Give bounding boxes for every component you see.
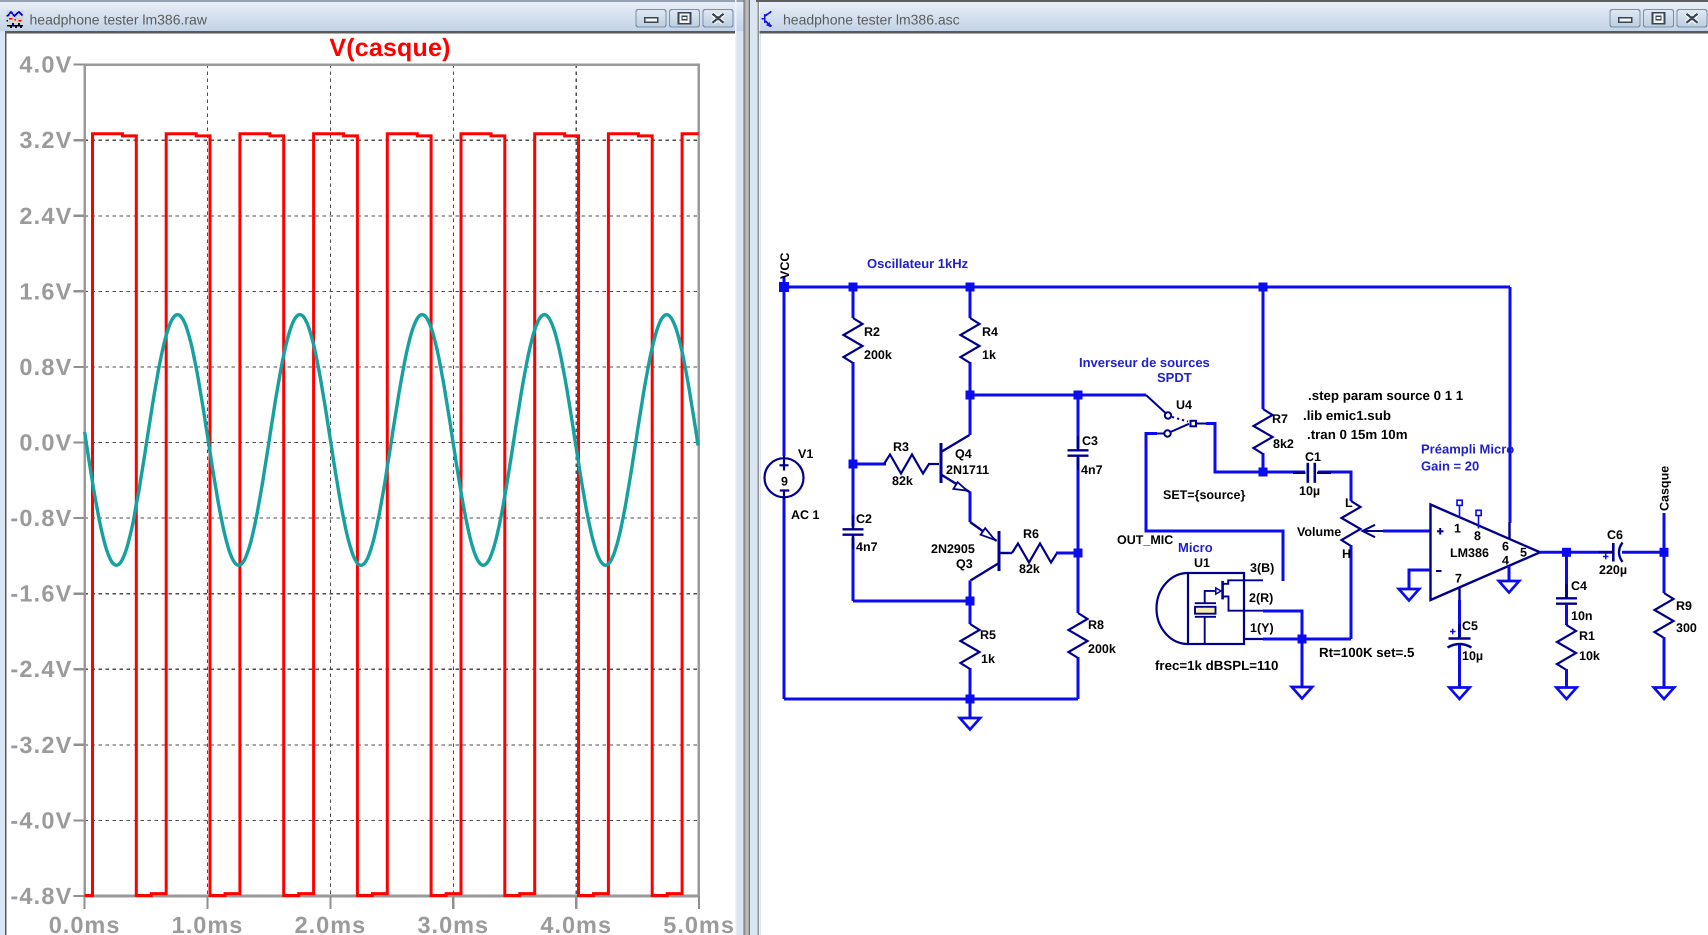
svg-text:4.0V: 4.0V xyxy=(19,52,72,78)
svg-text:5: 5 xyxy=(1520,546,1527,560)
svg-text:Q3: Q3 xyxy=(956,557,973,571)
svg-text:R5: R5 xyxy=(980,628,996,642)
svg-text:1(Y): 1(Y) xyxy=(1250,621,1274,635)
svg-text:200k: 200k xyxy=(1088,642,1116,656)
svg-text:-4.0V: -4.0V xyxy=(10,807,72,833)
svg-text:200k: 200k xyxy=(864,348,892,362)
left window buttons xyxy=(636,10,666,28)
svg-text:LM386: LM386 xyxy=(1450,546,1489,560)
resistor R7 xyxy=(1262,287,1265,409)
ground C5 xyxy=(1449,688,1469,700)
svg-text:-1.6V: -1.6V xyxy=(10,581,72,607)
flag Casque xyxy=(1663,513,1666,552)
svg-text:frec=1k dBSPL=110: frec=1k dBSPL=110 xyxy=(1155,658,1278,673)
svg-text:-4.8V: -4.8V xyxy=(10,883,72,909)
resistor R2 xyxy=(852,287,855,318)
resistor R8 xyxy=(1077,553,1080,613)
svg-text:5.0ms: 5.0ms xyxy=(663,912,735,935)
capacitor C3 xyxy=(1077,395,1080,449)
svg-text:SET={source}: SET={source} xyxy=(1163,488,1245,502)
wire Q3 collector xyxy=(969,581,972,602)
plot pane xyxy=(10,34,735,935)
right window frame xyxy=(760,0,1708,935)
svg-text:2(R): 2(R) xyxy=(1249,591,1273,605)
ground mic xyxy=(1301,639,1304,687)
resistor R1 xyxy=(1565,605,1568,626)
wire inverting input to ground xyxy=(1409,570,1430,589)
svg-text:VCC: VCC xyxy=(778,253,792,279)
ground main xyxy=(969,699,972,718)
right window icon xyxy=(761,11,771,26)
left window frame xyxy=(0,0,753,935)
trace V(casque) square wave red xyxy=(85,134,699,896)
svg-text:10n: 10n xyxy=(1571,609,1593,623)
svg-text:4.0ms: 4.0ms xyxy=(540,912,612,935)
svg-text:1: 1 xyxy=(1454,522,1461,536)
svg-text:V1: V1 xyxy=(798,447,813,461)
svg-text:R4: R4 xyxy=(982,325,998,339)
svg-text:R7: R7 xyxy=(1272,412,1288,426)
wire switch pole to R7 node xyxy=(1206,424,1263,473)
capacitor C5 10u polarized xyxy=(1458,624,1460,638)
svg-text:-2.4V: -2.4V xyxy=(10,656,72,682)
svg-text:Volume: Volume xyxy=(1297,525,1341,539)
wire op-amp output xyxy=(1540,551,1613,554)
svg-text:R6: R6 xyxy=(1023,527,1039,541)
svg-text:4n7: 4n7 xyxy=(856,540,878,554)
svg-text:C2: C2 xyxy=(856,512,872,526)
svg-text:2.4V: 2.4V xyxy=(19,203,72,229)
svg-text:Oscillateur 1kHz: Oscillateur 1kHz xyxy=(867,256,969,271)
svg-text:Gain = 20: Gain = 20 xyxy=(1421,459,1479,474)
x axis labels xyxy=(49,912,735,935)
svg-text:headphone tester lm386.raw: headphone tester lm386.raw xyxy=(30,12,208,28)
switch U4 SPDT xyxy=(1146,395,1206,437)
resistor R6 xyxy=(1012,544,1057,563)
pin 4 ground xyxy=(1508,566,1511,581)
svg-text:R3: R3 xyxy=(893,440,909,454)
potentiometer Volume xyxy=(1342,501,1361,546)
microphone U1 xyxy=(1157,573,1264,644)
pin 7 wire to C5 xyxy=(1458,587,1460,601)
wire VCC drop to U2 pin6 xyxy=(1509,287,1512,523)
svg-text:V(casque): V(casque) xyxy=(329,34,450,62)
svg-text:0.0V: 0.0V xyxy=(19,430,72,456)
svg-text:L: L xyxy=(1345,496,1353,510)
svg-text:1.6V: 1.6V xyxy=(19,278,72,304)
svg-text:R9: R9 xyxy=(1676,599,1692,613)
svg-text:6: 6 xyxy=(1502,540,1509,554)
wire Q4 collector xyxy=(969,395,972,435)
svg-text:Micro: Micro xyxy=(1178,540,1213,555)
plot axis box xyxy=(85,65,699,896)
svg-text:AC 1: AC 1 xyxy=(791,508,820,522)
svg-text:U4: U4 xyxy=(1176,398,1192,412)
svg-text:82k: 82k xyxy=(892,474,913,488)
svg-text:3.0ms: 3.0ms xyxy=(417,912,489,935)
ground R1 xyxy=(1556,688,1576,700)
y axis labels xyxy=(10,52,72,909)
svg-text:OUT_MIC: OUT_MIC xyxy=(1117,533,1173,547)
resistor R5 xyxy=(969,601,972,624)
wire wiper to op-amp xyxy=(1383,530,1430,533)
svg-text:C4: C4 xyxy=(1571,579,1587,593)
pin stubs 1 and 8 xyxy=(1457,500,1481,528)
window divider xyxy=(735,0,737,935)
svg-text:1k: 1k xyxy=(981,652,995,666)
flag VCC xyxy=(783,276,786,287)
resistor R3 xyxy=(884,455,929,474)
svg-text:2.0ms: 2.0ms xyxy=(295,912,367,935)
svg-text:8: 8 xyxy=(1474,529,1481,543)
svg-text:.tran 0 15m 10m: .tran 0 15m 10m xyxy=(1307,427,1408,442)
svg-text:0.8V: 0.8V xyxy=(19,354,72,380)
svg-text:7: 7 xyxy=(1455,572,1462,586)
svg-text:Inverseur de sources: Inverseur de sources xyxy=(1079,355,1210,370)
trace sine teal xyxy=(85,315,699,566)
resistor R9 xyxy=(1663,552,1666,593)
svg-text:-0.8V: -0.8V xyxy=(10,505,72,531)
ground R9 xyxy=(1654,688,1674,700)
svg-text:U1: U1 xyxy=(1194,556,1210,570)
capacitor C1 10u xyxy=(1263,471,1305,474)
ground op-amp minus xyxy=(1399,589,1419,601)
svg-text:220µ: 220µ xyxy=(1599,563,1627,577)
op-amp U2 LM386 xyxy=(1431,505,1541,601)
svg-text:C1: C1 xyxy=(1305,450,1321,464)
wire mic pin1 to pot xyxy=(1263,638,1351,641)
svg-text:4n7: 4n7 xyxy=(1081,463,1103,477)
wire mic pin2 xyxy=(1263,611,1302,639)
svg-text:10µ: 10µ xyxy=(1462,649,1483,663)
svg-text:1k: 1k xyxy=(982,348,996,362)
svg-text:headphone tester lm386.asc: headphone tester lm386.asc xyxy=(783,12,960,28)
svg-text:10µ: 10µ xyxy=(1299,484,1320,498)
node R7/C1 xyxy=(1259,468,1268,477)
left window icon xyxy=(7,11,24,29)
transistor Q4 2N1711 NPN xyxy=(941,435,970,492)
svg-text:0.0ms: 0.0ms xyxy=(49,912,121,935)
node VCC junctions xyxy=(779,282,789,292)
node Vbase2 xyxy=(970,394,1146,397)
right window buttons xyxy=(1610,10,1640,28)
svg-text:300: 300 xyxy=(1676,621,1697,635)
svg-text:82k: 82k xyxy=(1019,562,1040,576)
svg-text:8k2: 8k2 xyxy=(1273,437,1294,451)
svg-text:2N1711: 2N1711 xyxy=(946,463,989,477)
transistor Q3 2N2905 PNP xyxy=(970,522,1012,581)
svg-text:C3: C3 xyxy=(1082,434,1098,448)
wire ground bus xyxy=(784,698,1078,701)
svg-text:.lib emic1.sub: .lib emic1.sub xyxy=(1303,408,1391,423)
svg-text:C6: C6 xyxy=(1607,528,1623,542)
svg-text:4: 4 xyxy=(1502,554,1509,568)
wire VCC top bus xyxy=(784,286,1510,289)
capacitor C6 220u polarized xyxy=(1599,551,1612,553)
svg-text:Préampli Micro: Préampli Micro xyxy=(1421,442,1514,457)
svg-text:H: H xyxy=(1342,547,1351,561)
svg-text:Q4: Q4 xyxy=(955,447,972,461)
svg-text:1.0ms: 1.0ms xyxy=(172,912,244,935)
node Q4 base / R3 xyxy=(853,463,886,466)
svg-text:Rt=100K set=.5: Rt=100K set=.5 xyxy=(1319,645,1415,660)
voltage source V1 xyxy=(783,287,786,456)
svg-text:SPDT: SPDT xyxy=(1157,370,1192,385)
wire switch throw2 to OUT_MIC xyxy=(1146,434,1283,582)
wire C2 to ground node xyxy=(853,600,970,603)
svg-text:C5: C5 xyxy=(1462,619,1478,633)
svg-text:3.2V: 3.2V xyxy=(19,127,72,153)
wire Q4 emitter to Q3 xyxy=(969,492,972,523)
svg-text:2N2905: 2N2905 xyxy=(931,542,975,556)
svg-text:9: 9 xyxy=(781,475,788,489)
capacitor C4 xyxy=(1565,552,1568,597)
resistor R4 xyxy=(969,287,972,318)
svg-text:R2: R2 xyxy=(864,325,880,339)
svg-text:-3.2V: -3.2V xyxy=(10,732,72,758)
svg-text:10k: 10k xyxy=(1579,649,1600,663)
svg-text:R1: R1 xyxy=(1579,629,1595,643)
capacitor C2 xyxy=(852,464,855,527)
svg-text:R8: R8 xyxy=(1088,618,1104,632)
svg-text:Casque: Casque xyxy=(1658,466,1672,511)
svg-text:3(B): 3(B) xyxy=(1250,561,1274,575)
svg-text:.step param source 0 1 1: .step param source 0 1 1 xyxy=(1308,388,1464,403)
